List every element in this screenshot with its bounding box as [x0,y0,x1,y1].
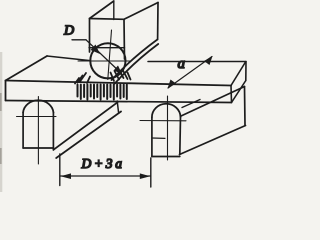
crush fan stroke left 1 [80,73,86,82]
left support horizontal centerline [17,116,57,118]
hatch stroke 3 [83,85,85,97]
specimen plate right end top receding edge [231,62,246,86]
crush fan stroke left 3 [75,78,79,84]
specimen plate right end vertical edge [230,86,233,103]
punch front-right edge [123,19,126,59]
hatch stroke 5 [90,85,92,97]
punch top-right receding edge [124,3,158,20]
punch front-top edge [90,18,125,21]
base block right side bottom edge [180,126,246,155]
specimen plate back-right vertical edge [245,62,247,81]
base block left side top edge [54,102,118,149]
hatch stroke 16 [126,85,128,99]
right support left edge [151,118,153,157]
svg-text:a: a [178,56,186,72]
leader tail from D [72,39,86,41]
left support left edge [22,112,24,148]
base block left side bottom edge [56,112,121,159]
right support bottom edge [152,156,180,158]
a arrowhead upper [204,56,213,65]
base block right side top edge [181,87,245,117]
crush fan stroke right 3 [119,70,124,79]
hatch stroke 4 [86,85,88,100]
crush fan stroke right 4 [123,71,128,80]
dimension left extension line [59,154,61,186]
diameter arrowhead upper [91,45,101,55]
punch shoulder chord line [89,47,125,49]
hatch stroke 7 [96,85,98,97]
specimen plate back-top edge right segment [148,61,246,63]
hatch stroke 13 [116,85,118,97]
specimen plate right end bottom receding edge [232,81,246,103]
specimen plate back-top edge left segment [47,56,89,61]
left support dome arc [23,100,53,112]
svg-text:D+3a: D+3a [81,156,123,171]
crush fan stroke right 2 [115,71,120,80]
hatch stroke 12 [113,85,115,100]
crush fan stroke right 5 [128,73,131,80]
hatch stroke 10 [106,85,108,99]
punch back-right vertical edge [157,3,159,40]
right support dome arc [152,104,181,118]
a arrowhead lower [168,80,177,89]
diameter arrowhead lower [114,66,123,75]
hatch stroke 2 [80,85,82,99]
diameter leader line [86,40,122,74]
punch top-left receding edge [90,1,114,19]
specimen plate left top receding edge [6,56,48,81]
thickness dimension line a [168,57,212,89]
circle horizontal centerline [78,60,131,62]
crush fan stroke left 2 [78,76,83,83]
specimen plate front-top edge [6,81,232,86]
dimension right arrowhead [140,173,150,179]
punch front-left edge [89,19,91,53]
dimension right extension line [150,158,152,187]
hatch stroke 15 [123,85,125,97]
svg-text:D: D [63,24,74,39]
hatch stroke 8 [100,85,102,100]
paper background [0,0,252,192]
hatch stroke 14 [119,85,121,99]
right support inner ledge line [152,137,165,139]
hatch stroke 9 [103,85,105,97]
base block back-right vertical edge [244,87,247,126]
hatch stroke 1 [77,85,79,97]
punch tip cone inner edge [115,44,158,84]
hatch stroke 11 [110,85,112,97]
left support right edge [52,112,54,150]
scan edge streak left border [0,52,2,192]
specimen plate front-bottom edge [6,101,232,103]
right support vertical centerline [167,96,169,160]
specimen plate left end edge [5,81,7,101]
punch tip cone outer edge [112,40,158,81]
right support dome receding edge [182,100,200,108]
right support horizontal centerline [140,120,186,122]
crush fan stroke right 1 [111,73,115,82]
crush fan stroke left 4 [87,77,90,84]
left support bottom edge [23,147,53,149]
base block left side end edge [117,101,118,112]
right support right edge [179,117,182,155]
dimension left arrowhead [61,173,72,179]
punch spherical tip circle D [90,43,125,78]
punch axis centerline [108,30,112,80]
left support vertical centerline [37,97,39,165]
dimension line D+3a [61,175,151,177]
hatch stroke 6 [93,85,95,99]
punch back-left short edge [113,1,115,20]
